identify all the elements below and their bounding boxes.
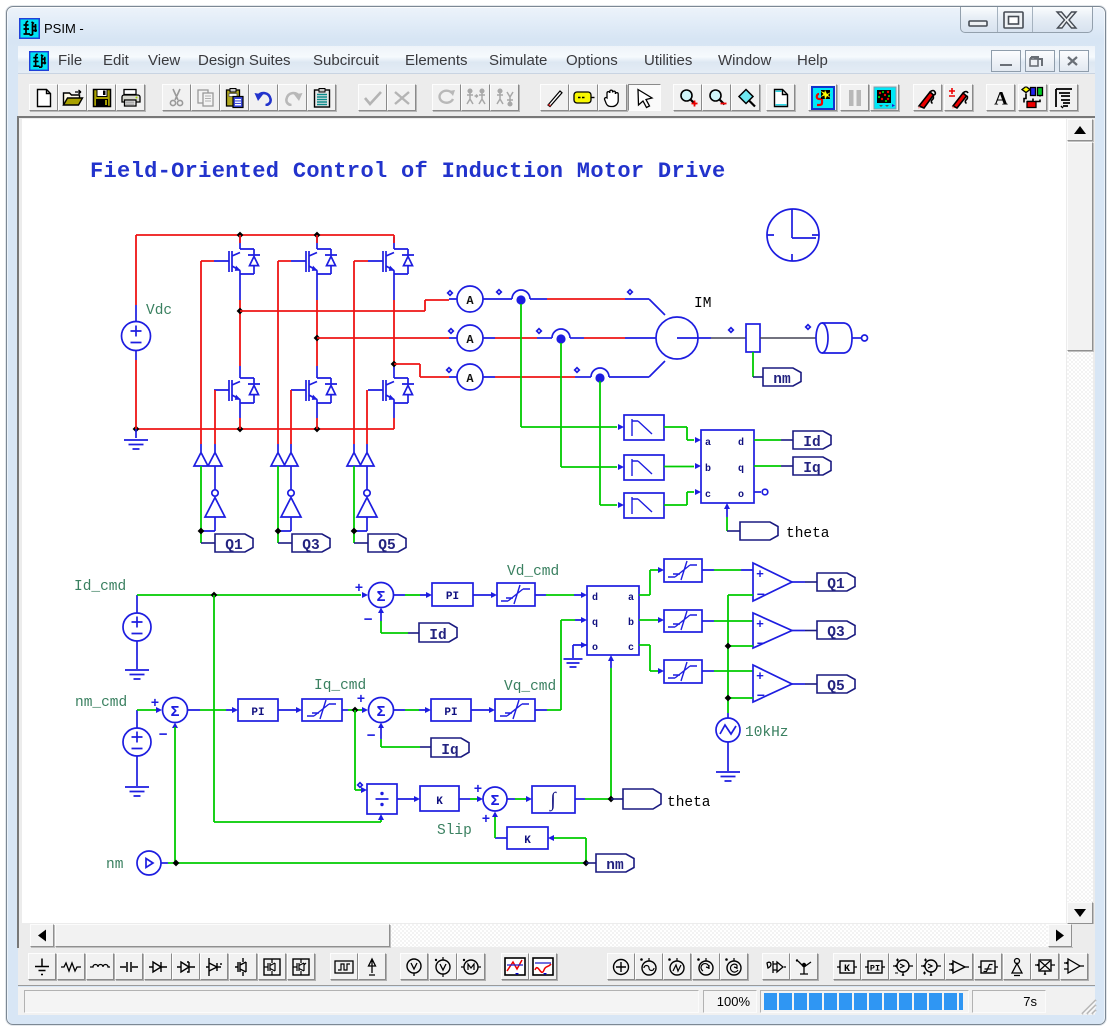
label nm_cmd: [75, 695, 127, 711]
label theta (text, lower): [667, 795, 711, 811]
svg-text:+: +: [756, 617, 764, 632]
node: carrier junction at comp3: [725, 695, 732, 702]
gating block pair leg2: [271, 444, 298, 490]
wire: leg2 collector / emitter / gate leads: [278, 235, 317, 444]
polarity marks (diamonds): [358, 290, 811, 788]
svg-text:Id_cmd: Id_cmd: [74, 579, 126, 595]
wire limiter B to comparator 2: [702, 620, 753, 622]
wire: K2 out to summer4: [495, 817, 507, 838]
svg-text:+: +: [357, 692, 365, 708]
ground (carrier): [716, 742, 740, 781]
current sensor phase C: [495, 361, 665, 383]
svg-text:10kHz: 10kHz: [745, 725, 789, 741]
label IM: [694, 296, 711, 312]
wire PI3 to limiter3: [471, 707, 495, 713]
abc to dq transformation block (current): [701, 430, 754, 503]
svg-text:Vd_cmd: Vd_cmd: [507, 564, 559, 580]
wire PI1 to limiter1: [473, 592, 497, 598]
wire: Iq_cmd to divider: [355, 710, 367, 793]
svg-text:+: +: [756, 669, 764, 684]
wire: dq-abc b to limiter B: [639, 617, 664, 623]
low-pass filter 2: [624, 455, 664, 480]
ground (Vdc): [124, 429, 148, 449]
wire: nm distribution: [168, 862, 586, 864]
node: gating leg2 junction: [275, 528, 282, 535]
svg-text:Q1: Q1: [225, 538, 243, 554]
dc source nm_cmd: [123, 710, 151, 770]
wire: speed feedback into summer: [174, 727, 176, 863]
label Slip: [437, 823, 472, 839]
induction motor IM: [656, 317, 711, 359]
svg-text:Q3: Q3: [827, 625, 844, 641]
wire limiter3 to dq-abc q: [535, 617, 587, 710]
wire: Id_cmd reference: [137, 592, 368, 598]
limiter A (phase a mod): [664, 559, 702, 582]
comparator 3: [753, 665, 792, 705]
svg-text:Q1: Q1: [827, 577, 845, 593]
svg-text:∫: ∫: [548, 789, 557, 812]
limiter C (phase c mod): [664, 660, 702, 683]
vertical scrollbar: [1067, 119, 1093, 924]
caption buttons: [960, 7, 1093, 33]
current sensor phase A: [512, 290, 547, 305]
wire + tag Iq feedback into summer: [381, 727, 469, 759]
svg-text:−: −: [363, 612, 372, 629]
node: theta junction: [608, 796, 615, 803]
label Vq_cmd: [504, 679, 556, 695]
wire + ground at o pin: [564, 642, 588, 667]
svg-text:c: c: [705, 490, 711, 501]
gating block pair leg3: [347, 444, 374, 490]
ammeter A (phase C): [449, 364, 495, 390]
wire: carrier distribution: [728, 595, 753, 718]
wire limiter A to comparator 1: [702, 569, 753, 571]
wire summer3 to PI3: [394, 707, 432, 713]
svg-text:a: a: [628, 593, 634, 604]
svg-text:nm: nm: [106, 857, 123, 873]
speed sensor (shaft): [711, 324, 760, 352]
mechanical load: [760, 323, 868, 353]
label tag Q1 (PWM out): [792, 573, 855, 593]
DC bus positive rail wire: [136, 234, 394, 236]
node: nm junction at K2: [583, 860, 590, 867]
node: phase A output: [237, 308, 244, 315]
svg-text:A: A: [466, 294, 474, 308]
wire limiter1 to dq-abc d: [535, 592, 587, 598]
svg-text:q: q: [592, 618, 598, 629]
horizontal scrollbar: [21, 924, 1067, 948]
wire + tag theta (rotor angle into abc-dq): [724, 503, 778, 540]
svg-text:Σ: Σ: [170, 704, 179, 721]
triangular carrier source 10kHz: [716, 718, 740, 742]
svg-text:Σ: Σ: [490, 793, 499, 810]
node: phase C output: [391, 361, 398, 368]
transistor Q-top-3 (IGBT leg3 top): [368, 237, 414, 289]
svg-text:d: d: [738, 437, 744, 449]
wire + tag Id feedback into summer: [381, 612, 457, 644]
inverter (NOT) gate leg2: [278, 490, 301, 531]
summer (d-axis current loop): [355, 581, 394, 629]
wire: filter1 to abc-dq input a: [664, 427, 701, 443]
node: negative rail at Vdc: [133, 426, 140, 433]
svg-text:Q3: Q3: [302, 538, 319, 554]
svg-text:o: o: [738, 490, 744, 501]
PI controller (speed): [238, 699, 278, 721]
low-pass filter 1: [624, 415, 664, 440]
svg-text:+: +: [482, 812, 490, 828]
ammeter A (phase B): [449, 325, 495, 351]
svg-text:Id: Id: [429, 628, 446, 644]
wire: filter3 to abc-dq input c: [664, 489, 701, 505]
svg-text:nm: nm: [606, 858, 624, 874]
transistor Q-bot-3 (IGBT leg3 bottom): [368, 366, 414, 418]
proportional gain K (slip freq): [507, 827, 548, 849]
ground (Id_cmd source): [125, 655, 149, 679]
svg-text:A: A: [466, 333, 474, 347]
ground (nm_cmd source): [125, 770, 149, 796]
label nm (sensor): [106, 857, 123, 873]
label tag Q5 (PWM out): [792, 675, 855, 695]
node: gating leg3 junction: [351, 528, 358, 535]
wire divider to K: [397, 796, 420, 802]
proportional gain K (slip): [420, 786, 459, 811]
svg-text:theta: theta: [786, 526, 830, 542]
node: phase B output: [314, 335, 321, 342]
DC bus negative rail wire: [136, 428, 394, 430]
wire: leg1 collector / emitter / gate leads: [201, 235, 240, 444]
menu bar: [18, 46, 1095, 74]
wire: dq-abc c to limiter C: [639, 645, 664, 674]
toolbar row 1 buttons: [29, 84, 58, 111]
label tag theta (output): [611, 789, 661, 809]
node: Iq_cmd junction: [352, 707, 359, 714]
pin o open terminal: [754, 489, 768, 495]
wire: phase A to ammeter: [240, 300, 449, 311]
canvas frame: [17, 116, 1095, 948]
integrator block: [532, 786, 575, 813]
svg-text:Σ: Σ: [376, 704, 385, 721]
wire: sensor C to filter 3: [600, 381, 624, 508]
wire: nm_cmd reference: [137, 707, 162, 713]
svg-text:−: −: [757, 637, 765, 653]
svg-text:PI: PI: [444, 707, 457, 719]
svg-text:K: K: [844, 964, 850, 975]
node: Id_cmd junction: [211, 592, 218, 599]
summer (slip + speed): [474, 782, 507, 828]
svg-text:o: o: [592, 643, 598, 654]
svg-text:b: b: [628, 617, 634, 629]
svg-text:Iq: Iq: [803, 461, 820, 477]
PI controller (q-axis): [431, 699, 471, 721]
wire: Id_cmd to divider denominator: [214, 814, 384, 822]
svg-text:Vq_cmd: Vq_cmd: [504, 679, 556, 695]
summer (q-axis current loop): [357, 692, 394, 745]
svg-text:q: q: [738, 464, 744, 475]
wire: Id_cmd feedback vertical: [213, 595, 215, 822]
label Id_cmd: [74, 579, 126, 595]
transistor Q-bot-1 (IGBT leg1 bottom): [214, 366, 260, 418]
limiter B (phase b mod): [664, 610, 702, 632]
label tag nm (speed sensor output): [753, 352, 801, 388]
wire: gating leg1 green: [200, 466, 202, 543]
speed sensor readout: [137, 851, 168, 875]
wire: filter2 to abc-dq input b: [664, 463, 701, 469]
MDI child buttons: [991, 50, 1021, 72]
wire: dq-abc a to limiter A: [639, 567, 664, 595]
svg-text:−: −: [757, 689, 765, 705]
svg-text:A: A: [466, 372, 474, 386]
svg-text:Q5: Q5: [827, 679, 844, 695]
wire: phase B to ammeter: [317, 337, 449, 339]
svg-text:nm: nm: [773, 372, 791, 388]
transistor Q-top-1 (IGBT leg1 top): [214, 237, 260, 289]
wire: sensor B to filter 2: [561, 343, 624, 470]
wire K to summer4: [459, 796, 483, 802]
svg-text:nm_cmd: nm_cmd: [75, 695, 127, 711]
label tag Q3 (PWM out): [792, 621, 855, 641]
label 10kHz: [745, 725, 789, 741]
svg-text:Q5: Q5: [378, 538, 395, 554]
inverter (NOT) gate leg3: [354, 490, 377, 531]
label tag Q3 (gate): [278, 534, 330, 554]
dc source Vdc: [122, 235, 151, 429]
svg-text:Iq: Iq: [441, 743, 458, 759]
node: carrier junction at comp2: [725, 643, 732, 650]
transistor Q-top-2 (IGBT leg2 top): [291, 237, 337, 289]
svg-text:d: d: [592, 592, 598, 604]
node: gating leg1 junction: [198, 528, 205, 535]
svg-text:Vdc: Vdc: [146, 303, 172, 319]
svg-text:PI: PI: [251, 707, 264, 719]
wire summer4 to integrator: [507, 796, 532, 802]
wire: sensor A to filter 1: [521, 304, 624, 430]
ammeter A (phase A): [449, 286, 512, 312]
svg-text:IM: IM: [694, 296, 711, 312]
status bar: [18, 987, 1095, 1015]
wire integrator out / theta node: [575, 798, 611, 800]
label theta (text): [786, 526, 830, 542]
svg-text:c: c: [628, 643, 634, 654]
comparator 1: [753, 563, 792, 604]
dq to abc transformation block: [587, 586, 639, 655]
svg-text:PI: PI: [446, 591, 459, 603]
limiter (Iq_cmd): [302, 699, 342, 721]
svg-text:+: +: [151, 696, 159, 712]
label tag Q5 (gate): [354, 534, 406, 554]
svg-text:A: A: [994, 89, 1008, 107]
svg-text:−: −: [366, 728, 375, 745]
svg-text:b: b: [705, 463, 711, 475]
limiter (Vq): [495, 699, 535, 721]
wire limiter2 to summer3: [342, 707, 368, 713]
wire: phase C to ammeter: [394, 364, 449, 377]
current sensor phase B: [495, 329, 656, 344]
svg-text:Slip: Slip: [437, 823, 472, 839]
label Iq_cmd: [314, 678, 366, 694]
wire: gating leg3 green: [353, 466, 355, 543]
svg-text:−: −: [158, 727, 167, 744]
label Vdc: [146, 303, 172, 319]
svg-text:K: K: [524, 835, 531, 847]
svg-text:Σ: Σ: [376, 589, 385, 606]
svg-text:PI: PI: [870, 963, 880, 973]
low-pass filter 3: [624, 493, 664, 518]
svg-text:K: K: [436, 796, 443, 808]
svg-text:a: a: [705, 438, 711, 449]
summer (speed loop): [151, 696, 188, 744]
limiter (Vd): [497, 583, 535, 606]
wire PI2 to limiter2: [278, 707, 302, 713]
svg-text:Id: Id: [803, 435, 820, 451]
divider block: [367, 784, 397, 814]
transistor Q-bot-2 (IGBT leg2 bottom): [291, 366, 337, 418]
wire: phase A red segment to motor: [547, 299, 665, 315]
title bar icon: [19, 18, 40, 39]
PI controller (d-axis): [432, 583, 473, 606]
wire: nm to K2 input: [548, 835, 586, 863]
svg-text:+: +: [474, 782, 482, 798]
wire: gating leg2 green: [277, 466, 279, 543]
wire summer1 to PI1: [394, 592, 433, 598]
comparator 2: [753, 613, 792, 653]
wire limiter C to comparator 3: [702, 670, 753, 672]
clock element: [767, 209, 819, 261]
label tag Id (measured d current): [754, 431, 831, 451]
label tag nm (readback): [586, 854, 634, 874]
svg-text:−: −: [757, 588, 765, 604]
node: nm junction at summer2 feedback: [173, 860, 180, 867]
gating block pair leg1: [194, 444, 222, 490]
node: rail junction leg1: [237, 232, 244, 239]
inverter (NOT) gate leg1: [201, 490, 225, 531]
node: negative rail junction leg2: [314, 426, 321, 433]
node: rail junction leg2: [314, 232, 321, 239]
label Vd_cmd: [507, 564, 559, 580]
wire: theta into dq-abc bottom pin: [608, 655, 614, 799]
svg-text:theta: theta: [667, 795, 711, 811]
wire summer2 to PI2: [188, 707, 239, 713]
svg-text:Field-Oriented Control of Indu: Field-Oriented Control of Induction Moto…: [90, 159, 726, 184]
wire: leg3 collector / emitter / gate leads: [354, 235, 394, 444]
dc source Id_cmd: [123, 595, 151, 655]
label tag Q1 (gate): [201, 534, 253, 554]
svg-text:+: +: [756, 567, 764, 582]
svg-text:+: +: [355, 581, 363, 597]
label tag Iq (measured q current): [754, 457, 831, 477]
node: negative rail junction leg1: [237, 426, 244, 433]
